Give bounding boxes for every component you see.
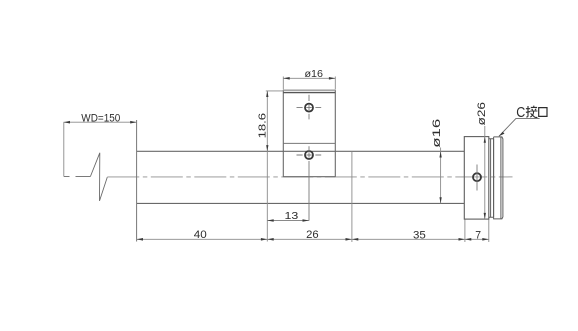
dimension d16 right vertical line bbox=[440, 148, 442, 204]
bracket top edge lower bbox=[283, 92, 335, 94]
svg-text:C: C bbox=[516, 104, 525, 121]
label glyph jie bbox=[526, 106, 538, 118]
flange hole circle bbox=[473, 173, 481, 181]
leader arrow bbox=[499, 132, 505, 137]
arrows at junction 267 bbox=[261, 238, 274, 241]
arrow 18.6 top bbox=[266, 91, 268, 97]
arrow WD right bbox=[130, 121, 136, 124]
arrow d26 top bbox=[484, 137, 486, 143]
hole 2 crosshair vertical and extension to 13 dim bbox=[308, 146, 310, 220]
svg-text:35: 35 bbox=[413, 230, 426, 242]
leader line C-mount bbox=[499, 118, 540, 136]
hole 1 circle bbox=[305, 104, 313, 112]
tube left edge bbox=[136, 120, 138, 242]
arrow d16 right bbox=[329, 77, 335, 80]
C-mount ring 1 narrow bbox=[489, 139, 494, 218]
break symbol zigzag bbox=[90, 153, 107, 201]
svg-text:7: 7 bbox=[475, 229, 481, 241]
bracket inner line bbox=[283, 142, 335, 144]
dimension 13 line bbox=[267, 220, 309, 222]
bracket top edge upper bbox=[283, 89, 335, 91]
svg-text:ø26: ø26 bbox=[476, 102, 488, 126]
dimension d16 top extension left bbox=[282, 77, 284, 90]
dimension 18.6 vertical line and lower extension bbox=[266, 91, 268, 242]
arrow 13 right bbox=[303, 219, 309, 222]
arrows at junction 352 bbox=[346, 238, 359, 241]
dimension 18.6 top extension horizontal bbox=[266, 90, 284, 92]
arrow 18.6 bottom bbox=[266, 145, 268, 151]
bracket left edge bbox=[282, 90, 284, 177]
object axis dash segments left bbox=[64, 176, 91, 178]
arrows at junction 465 bbox=[459, 238, 472, 241]
dimension d26 vertical line bbox=[484, 126, 486, 219]
arrow 13 left bbox=[267, 219, 273, 222]
extension line left WD bbox=[63, 122, 65, 176]
tube bottom line bbox=[137, 202, 465, 204]
main bottom dimension line bbox=[137, 238, 489, 240]
flange outline bbox=[464, 137, 489, 220]
extension line flange right bbox=[488, 219, 490, 242]
centerline main axis dash-dot bbox=[107, 176, 512, 178]
svg-text:18.6: 18.6 bbox=[257, 113, 269, 139]
hole 2 circle bbox=[305, 151, 313, 159]
arrow d26 bottom bbox=[484, 213, 486, 219]
extension line flange left bbox=[464, 219, 466, 242]
dimension d16 top extension right bbox=[334, 77, 336, 90]
arrow 40 left bbox=[137, 238, 143, 241]
C-mount ring 2 body bbox=[494, 137, 503, 219]
svg-text:ø16: ø16 bbox=[431, 119, 443, 148]
dimension WD=150 line bbox=[64, 121, 137, 123]
bracket right edge bbox=[334, 90, 336, 177]
bracket bottom edge bbox=[283, 176, 335, 178]
hole 2 crosshair horizontal bbox=[297, 154, 322, 156]
extension line at 352 bbox=[351, 151, 353, 242]
arrow d16 right bottom bbox=[439, 197, 441, 203]
svg-text:13: 13 bbox=[285, 210, 299, 222]
svg-text:26: 26 bbox=[306, 229, 319, 241]
flange hole crosshair vertical bbox=[476, 165, 478, 191]
svg-text:40: 40 bbox=[194, 229, 207, 241]
arrow WD left bbox=[64, 121, 70, 124]
arrow d16 right top bbox=[439, 151, 441, 157]
tube top line bbox=[137, 150, 465, 152]
hole 1 crosshair horizontal bbox=[297, 107, 322, 109]
label glyph kou bbox=[539, 108, 547, 117]
arrow 7 right bbox=[482, 238, 488, 241]
hole 1 crosshair vertical bbox=[308, 95, 310, 120]
svg-text:ø16: ø16 bbox=[305, 68, 324, 80]
dimension d16 top line bbox=[283, 77, 335, 79]
arrow d16 left bbox=[283, 77, 289, 80]
